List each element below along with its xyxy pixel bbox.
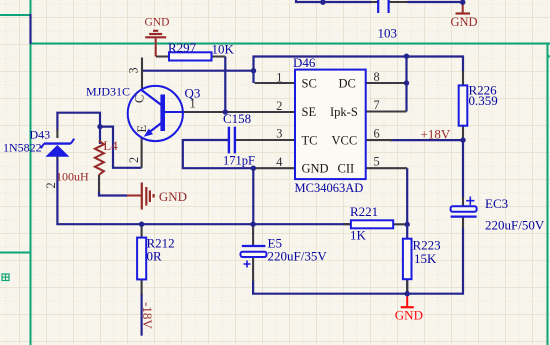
svg-text:VCC: VCC — [332, 133, 358, 147]
svg-text:CII: CII — [338, 162, 355, 176]
svg-text:MC34063AD: MC34063AD — [295, 181, 364, 195]
svg-text:100uH: 100uH — [56, 170, 89, 184]
svg-text:EC3: EC3 — [485, 196, 508, 211]
svg-text:103: 103 — [378, 26, 398, 41]
svg-text:+18V: +18V — [421, 127, 451, 142]
svg-text:1: 1 — [276, 71, 282, 85]
svg-text:L4: L4 — [103, 138, 118, 153]
svg-text:D46: D46 — [293, 55, 316, 70]
svg-text:2: 2 — [44, 182, 58, 188]
svg-text:GND: GND — [159, 189, 187, 204]
svg-text:220uF/35V: 220uF/35V — [268, 248, 328, 263]
svg-text:2: 2 — [276, 99, 282, 113]
svg-text:6: 6 — [374, 126, 380, 140]
svg-text:DC: DC — [339, 77, 356, 91]
svg-text:MJD31C: MJD31C — [86, 85, 130, 99]
svg-text:GND: GND — [395, 308, 423, 323]
svg-text:2: 2 — [127, 157, 141, 163]
svg-text:R221: R221 — [350, 204, 378, 219]
svg-text:-18V: -18V — [140, 302, 155, 329]
svg-text:4: 4 — [276, 155, 282, 169]
svg-text:5: 5 — [374, 155, 380, 169]
svg-text:1N5822: 1N5822 — [3, 141, 42, 155]
svg-text:SC: SC — [302, 77, 317, 91]
svg-text:3: 3 — [276, 127, 282, 141]
svg-text:Ipk-S: Ipk-S — [330, 105, 358, 119]
svg-text:1K: 1K — [350, 228, 367, 243]
svg-text:TC: TC — [302, 133, 318, 147]
svg-text:GND: GND — [302, 162, 329, 176]
svg-text:C158: C158 — [223, 111, 251, 126]
svg-text:0R: 0R — [147, 249, 163, 264]
svg-text:1: 1 — [190, 96, 196, 110]
svg-text:GND: GND — [145, 17, 170, 29]
svg-text:D43: D43 — [30, 128, 51, 142]
svg-text:171pF: 171pF — [223, 154, 255, 168]
svg-text:10K: 10K — [212, 42, 235, 57]
svg-text:8: 8 — [374, 70, 380, 84]
svg-text:3: 3 — [127, 67, 141, 73]
svg-text:0.359: 0.359 — [469, 93, 498, 108]
svg-text:220uF/50V: 220uF/50V — [485, 217, 545, 232]
svg-text:7: 7 — [374, 98, 380, 112]
svg-text:GND: GND — [451, 15, 478, 29]
svg-text:R297: R297 — [168, 40, 197, 55]
svg-text:C: C — [133, 95, 147, 103]
svg-text:E: E — [135, 125, 149, 133]
svg-text:15K: 15K — [414, 251, 437, 266]
svg-text:SE: SE — [302, 105, 317, 119]
